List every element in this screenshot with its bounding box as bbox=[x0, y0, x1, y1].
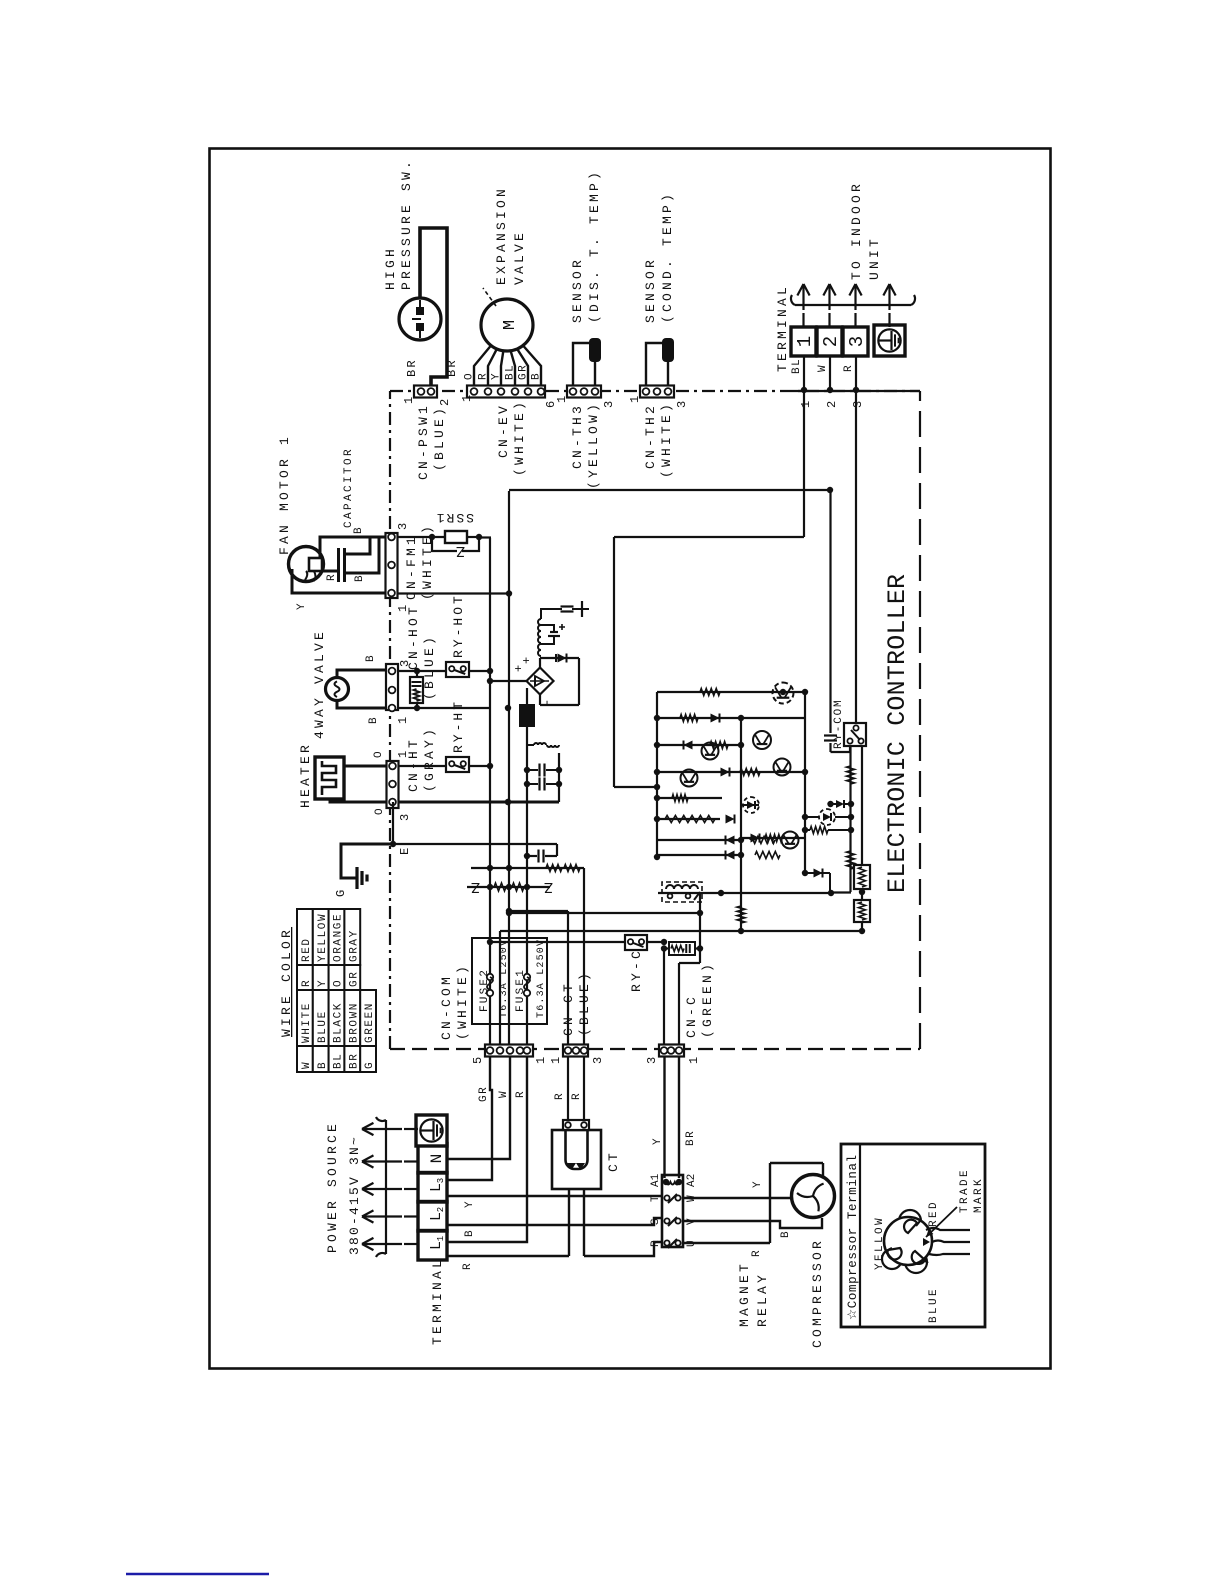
svg-text:CN-C: CN-C bbox=[684, 994, 699, 1038]
cluster row 6 long resistor bbox=[657, 818, 720, 820]
quencher box across CN-C bbox=[669, 942, 695, 955]
svg-text:2: 2 bbox=[436, 1207, 446, 1212]
svg-text:GR: GR bbox=[348, 971, 360, 987]
svg-text:UNIT: UNIT bbox=[867, 236, 882, 280]
svg-text:1: 1 bbox=[628, 396, 642, 403]
svg-text:ELECTRONIC CONTROLLER: ELECTRONIC CONTROLLER bbox=[883, 574, 912, 893]
svg-text:SSR1: SSR1 bbox=[435, 510, 474, 525]
cluster diodes bbox=[711, 714, 720, 723]
sensor thermistor TH3 bbox=[589, 338, 601, 362]
svg-text:(COND. TEMP): (COND. TEMP) bbox=[660, 191, 675, 323]
wire B fan to pin3 bbox=[320, 537, 387, 558]
connector CN-CT bbox=[563, 1045, 588, 1057]
svg-text:G: G bbox=[334, 888, 348, 897]
svg-text:(BLUE): (BLUE) bbox=[422, 634, 437, 700]
node E bbox=[390, 841, 396, 847]
svg-text:1: 1 bbox=[402, 397, 416, 404]
relay coil bbox=[663, 1179, 669, 1185]
wire CN-COM pin4 branch bbox=[499, 931, 501, 1045]
svg-text:3: 3 bbox=[675, 401, 689, 408]
svg-text:VALVE: VALVE bbox=[512, 230, 527, 285]
svg-text:2: 2 bbox=[820, 336, 842, 347]
wire bridge to rail1 bbox=[490, 680, 526, 682]
connector CN-COM bbox=[503, 1045, 515, 1056]
heater wire to pin1 bbox=[344, 765, 387, 768]
svg-text:COMPRESSOR: COMPRESSOR bbox=[810, 1238, 825, 1348]
svg-text:CN-HOT: CN-HOT bbox=[406, 604, 421, 670]
svg-text:R: R bbox=[650, 1240, 662, 1247]
svg-text:1: 1 bbox=[799, 401, 813, 408]
svg-text:2: 2 bbox=[825, 401, 839, 408]
cluster row 4 bbox=[657, 771, 805, 773]
resistor mid bus end bbox=[737, 906, 745, 923]
svg-text:YELLOW: YELLOW bbox=[317, 913, 329, 962]
svg-text:T6.3A L250V: T6.3A L250V bbox=[536, 939, 547, 1018]
svg-text:CN-PSW1: CN-PSW1 bbox=[416, 403, 431, 480]
fuse FUSE2 bbox=[487, 990, 493, 996]
wire Y fan common bbox=[292, 569, 386, 593]
PTC resistor block 2 bbox=[854, 900, 870, 922]
svg-text:GREEN: GREEN bbox=[364, 1002, 376, 1043]
cluster row 5 bbox=[657, 797, 722, 799]
svg-text:L: L bbox=[428, 1241, 445, 1250]
cluster mid bus bbox=[740, 718, 742, 931]
wire R L1 to CN-COM pin1 bbox=[447, 1056, 527, 1242]
SMPS transformer B bbox=[527, 744, 534, 746]
svg-text:SENSOR: SENSOR bbox=[643, 257, 658, 323]
svg-text:+: + bbox=[520, 657, 534, 664]
power rail 1 (GR phase) bbox=[489, 538, 491, 1045]
wire B to compressor bbox=[683, 1218, 822, 1228]
wire HPS pin2 loop bbox=[420, 228, 447, 386]
wire CN-CT pin1 into controller bbox=[567, 911, 569, 1045]
cluster row 7 bbox=[657, 839, 741, 841]
svg-text:HIGH: HIGH bbox=[383, 246, 398, 290]
svg-text:Z: Z bbox=[471, 878, 480, 895]
connector CN-TH3 bbox=[567, 386, 601, 398]
svg-text:Z: Z bbox=[544, 878, 553, 895]
svg-text:WIRE COLOR: WIRE COLOR bbox=[279, 927, 294, 1037]
svg-text:O: O bbox=[464, 372, 476, 380]
transistor T3 bbox=[774, 759, 791, 776]
ground symbol bbox=[347, 877, 357, 880]
svg-text:TRADE: TRADE bbox=[959, 1168, 971, 1213]
PTC resistor block 1 bbox=[854, 865, 870, 889]
svg-text:Y: Y bbox=[752, 1180, 764, 1188]
svg-text:3: 3 bbox=[436, 1178, 446, 1183]
wire R indoor to RY-COM bbox=[855, 390, 857, 723]
cluster row 2 bbox=[657, 717, 805, 719]
svg-text:R: R bbox=[462, 1262, 474, 1270]
wire CN-FM1 pin1 to rail2 bbox=[398, 592, 509, 594]
compressor terminal inset box bbox=[841, 1144, 985, 1327]
resistor right bus to RYCOM bbox=[810, 827, 828, 834]
svg-text:EXPANSION: EXPANSION bbox=[494, 186, 509, 285]
power bundle line bbox=[385, 1120, 387, 1254]
RY-C coil bbox=[662, 882, 702, 902]
svg-text:HEATER: HEATER bbox=[298, 742, 313, 808]
svg-text:1: 1 bbox=[534, 1057, 548, 1064]
svg-text:CN-TH3: CN-TH3 bbox=[570, 403, 585, 469]
footer blue line bbox=[126, 1573, 269, 1575]
svg-text:1: 1 bbox=[794, 336, 816, 347]
svg-text:Y: Y bbox=[317, 979, 329, 987]
wire R L1 phase into CT bbox=[447, 1255, 569, 1257]
svg-text:MAGNET: MAGNET bbox=[737, 1261, 752, 1327]
CT current transformer bbox=[552, 1130, 601, 1189]
svg-text:GRAY: GRAY bbox=[348, 929, 360, 962]
svg-text:BR: BR bbox=[445, 358, 459, 377]
svg-text:R: R bbox=[301, 979, 313, 987]
wire CN-C pin1 into controller bbox=[678, 963, 680, 1045]
svg-text:TERMINAL: TERMINAL bbox=[430, 1257, 445, 1345]
svg-text:(WHITE): (WHITE) bbox=[512, 399, 527, 476]
RY-COM NO chain to PTC resistors bbox=[861, 746, 863, 865]
svg-text:L: L bbox=[428, 1183, 445, 1192]
connector CN-PSW1 bbox=[414, 386, 437, 398]
svg-text:TO INDOOR: TO INDOOR bbox=[849, 181, 864, 280]
svg-text:BLUE: BLUE bbox=[317, 1010, 329, 1043]
terminal pins bbox=[886, 1220, 928, 1264]
svg-text:B: B bbox=[780, 1230, 792, 1238]
wire R CT return to relay bbox=[583, 1189, 585, 1256]
svg-text:RY-C: RY-C bbox=[629, 948, 644, 992]
bridge right loop bbox=[539, 658, 541, 668]
high pressure switch HPS bbox=[399, 298, 441, 340]
svg-text:GR: GR bbox=[478, 1086, 490, 1102]
transistor T2 bbox=[753, 731, 771, 749]
svg-text:BLACK: BLACK bbox=[333, 1002, 345, 1043]
resistors on CT sense line bbox=[546, 865, 562, 872]
transistor T1 triac bbox=[773, 683, 794, 704]
svg-text:BL: BL bbox=[505, 364, 517, 380]
svg-text:BR: BR bbox=[405, 358, 419, 377]
svg-text:380-415V 3N~: 380-415V 3N~ bbox=[347, 1135, 362, 1255]
svg-text:1: 1 bbox=[436, 1236, 446, 1241]
svg-text:T: T bbox=[650, 1195, 662, 1202]
transistor T4 bbox=[702, 743, 719, 760]
terminal triangle mark bbox=[923, 1238, 930, 1246]
svg-text:GR: GR bbox=[518, 364, 530, 380]
svg-text:+: + bbox=[512, 665, 526, 672]
capacitor CAP bbox=[337, 548, 340, 582]
svg-text:O: O bbox=[333, 979, 345, 987]
svg-text:CN-COM: CN-COM bbox=[439, 974, 454, 1040]
transistor T6 bbox=[782, 832, 799, 849]
connector CN-FM1 bbox=[386, 533, 398, 598]
svg-text:O: O bbox=[374, 807, 386, 815]
svg-text:PRESSURE SW.: PRESSURE SW. bbox=[399, 158, 414, 290]
LED cluster bbox=[819, 809, 835, 825]
magnet relay box bbox=[662, 1175, 683, 1247]
power source arrows bbox=[404, 1243, 418, 1245]
svg-text:FUSE2: FUSE2 bbox=[479, 968, 491, 1012]
svg-text:FUSE1: FUSE1 bbox=[515, 968, 527, 1012]
svg-text:L: L bbox=[428, 1212, 445, 1221]
svg-text:WHITE: WHITE bbox=[301, 1002, 313, 1043]
svg-text:M: M bbox=[501, 320, 520, 330]
svg-text:3: 3 bbox=[591, 1057, 605, 1064]
svg-text:ORANGE: ORANGE bbox=[333, 913, 345, 962]
wires CN-CT to CT bbox=[567, 1056, 569, 1120]
wire Y L3 phase bbox=[447, 1195, 662, 1197]
wire W N to CN-COM pin3 bbox=[447, 1056, 510, 1159]
power terminal earth block bbox=[416, 1115, 447, 1146]
wire E into controller bbox=[393, 843, 557, 845]
terminal outer lobes bbox=[899, 1210, 921, 1232]
relay RY-HT bbox=[399, 765, 446, 767]
SMPS switch transistor bbox=[541, 636, 554, 644]
svg-text:TERMINAL: TERMINAL bbox=[775, 284, 790, 372]
svg-text:B: B bbox=[353, 526, 365, 534]
relay RY-COM bbox=[831, 746, 851, 752]
cable bundle line bbox=[795, 304, 911, 306]
bottom diode row bbox=[805, 872, 830, 874]
SMPS output caps bbox=[527, 769, 538, 771]
capacitor stub A bbox=[346, 537, 370, 554]
cluster resistors bbox=[700, 689, 720, 696]
filter choke black bbox=[519, 704, 535, 727]
svg-text:3: 3 bbox=[398, 814, 412, 821]
svg-text:Y: Y bbox=[296, 602, 308, 610]
svg-text:A2: A2 bbox=[686, 1174, 698, 1187]
svg-text:2: 2 bbox=[438, 399, 452, 406]
expansion valve fan wires bbox=[474, 345, 491, 386]
svg-text:1: 1 bbox=[549, 1057, 563, 1064]
SSR1 to rail1 bbox=[479, 536, 491, 538]
wire CN-C pin3 into controller bbox=[663, 948, 665, 1045]
transistor T5 bbox=[681, 770, 698, 787]
svg-text:CAPACITOR: CAPACITOR bbox=[343, 447, 355, 528]
valve wire to pin3 bbox=[337, 670, 386, 678]
snubber across CN-HOT pins bbox=[410, 677, 423, 703]
svg-text:B: B bbox=[354, 574, 366, 582]
SMPS bottom return line bbox=[558, 753, 560, 802]
svg-text:S: S bbox=[650, 1218, 662, 1225]
svg-text:3: 3 bbox=[851, 401, 865, 408]
svg-text:☆Compressor Terminal: ☆Compressor Terminal bbox=[846, 1154, 860, 1320]
svg-text:(BLUE): (BLUE) bbox=[432, 405, 447, 471]
wire BR CN-C pin1 to coil A2 bbox=[678, 1055, 680, 1178]
svg-text:(WHITE): (WHITE) bbox=[455, 963, 470, 1040]
sensor thermistor TH2 bbox=[662, 338, 674, 362]
diagram border frame bbox=[210, 149, 1051, 1369]
indoor unit arrows bbox=[802, 313, 804, 327]
svg-text:1: 1 bbox=[460, 395, 474, 402]
svg-text:CN-EV: CN-EV bbox=[496, 403, 511, 458]
svg-text:W: W bbox=[301, 1061, 313, 1069]
terminal wires bbox=[926, 1228, 970, 1230]
connector CN-C bbox=[659, 1045, 684, 1057]
ELECTRONIC CONTROLLER dashed boundary box bbox=[390, 391, 920, 1049]
heater element bbox=[315, 757, 344, 799]
opto diode bbox=[743, 797, 759, 813]
wire R to compressor loop bbox=[683, 1242, 770, 1244]
svg-text:BL: BL bbox=[791, 358, 803, 374]
power rail 2 (W neutral) bbox=[508, 491, 510, 1045]
relay RY-HOT bbox=[446, 662, 469, 677]
wire PTC to mid bus bbox=[741, 922, 862, 931]
bus to RY-C coil bbox=[658, 892, 831, 894]
connector CN-HT bbox=[387, 761, 399, 808]
svg-text:1: 1 bbox=[687, 1057, 701, 1064]
svg-text:N: N bbox=[428, 1154, 446, 1164]
svg-text:RY-HT: RY-HT bbox=[451, 699, 466, 753]
connector CN-HOT bbox=[386, 664, 398, 710]
cluster left bus bbox=[656, 692, 658, 857]
indoor terminal blocks 1 2 3 and earth bbox=[803, 356, 805, 390]
power rail 3 (R phase) bbox=[526, 820, 528, 1045]
svg-text:RED: RED bbox=[301, 937, 313, 962]
svg-text:SENSOR: SENSOR bbox=[570, 257, 585, 323]
svg-text:3: 3 bbox=[602, 401, 616, 408]
svg-text:CN-HT: CN-HT bbox=[406, 737, 421, 792]
wire B L2 phase bbox=[447, 1218, 662, 1225]
heater bottom wire bbox=[330, 799, 559, 802]
SSR1 varistor parallel loop bbox=[432, 537, 457, 551]
wire GR L3 to CN-COM pin5 bbox=[447, 1056, 492, 1180]
svg-text:(DIS. T. TEMP): (DIS. T. TEMP) bbox=[587, 169, 602, 323]
cluster row 1 bbox=[657, 691, 805, 693]
rail3 extension to SMPS bbox=[526, 727, 528, 820]
svg-text:3: 3 bbox=[846, 336, 868, 347]
compressor motor bbox=[792, 1175, 835, 1218]
compressor wires from magnet relay bbox=[683, 1197, 792, 1199]
svg-text:B: B bbox=[464, 1229, 476, 1237]
expansion valve motor M bbox=[481, 299, 533, 351]
svg-text:E: E bbox=[398, 847, 412, 855]
svg-text:3: 3 bbox=[396, 523, 410, 530]
cluster dots bbox=[654, 854, 660, 860]
cluster row 3 bbox=[657, 744, 741, 746]
wire Y CN-C pin3 to coil A1 bbox=[663, 1055, 665, 1178]
svg-text:RY-HOT: RY-HOT bbox=[451, 593, 466, 658]
svg-text:B: B bbox=[368, 716, 380, 724]
SMPS bridge rectifier bbox=[527, 668, 554, 695]
svg-text:W: W bbox=[498, 1090, 510, 1098]
fan motor FM1 bbox=[289, 547, 324, 582]
svg-text:BR: BR bbox=[685, 1130, 697, 1146]
wire coil to quencher bbox=[699, 892, 701, 963]
svg-text:CT: CT bbox=[606, 1150, 621, 1172]
wire W indoor terminal to rails bbox=[509, 489, 830, 491]
svg-text:R: R bbox=[751, 1249, 763, 1257]
svg-text:R: R bbox=[554, 1092, 566, 1100]
varistor row between rails bbox=[467, 886, 550, 888]
solid boundary overlay near indoor wires bbox=[793, 390, 920, 392]
svg-text:B: B bbox=[531, 372, 543, 380]
svg-text:CN-TH2: CN-TH2 bbox=[643, 403, 658, 469]
svg-text:4WAY VALVE: 4WAY VALVE bbox=[312, 629, 327, 739]
CT connector bbox=[563, 1120, 589, 1130]
ground wire G bbox=[341, 844, 393, 878]
relay contacts T S R bbox=[664, 1195, 669, 1200]
svg-text:FAN MOTOR 1: FAN MOTOR 1 bbox=[277, 434, 292, 555]
svg-text:(YELLOW): (YELLOW) bbox=[586, 401, 601, 489]
svg-text:YELLOW: YELLOW bbox=[874, 1216, 886, 1270]
capacitor stub B bbox=[346, 537, 379, 573]
wire BL indoor to cluster bbox=[803, 390, 805, 537]
svg-text:B: B bbox=[317, 1061, 329, 1069]
4way valve solenoid bbox=[326, 678, 349, 701]
svg-text:W: W bbox=[817, 364, 829, 372]
svg-text:BLUE: BLUE bbox=[928, 1287, 940, 1323]
svg-text:B: B bbox=[365, 654, 377, 662]
svg-text:R: R bbox=[515, 1090, 527, 1098]
svg-text:BL: BL bbox=[333, 1053, 345, 1069]
svg-text:1: 1 bbox=[555, 396, 569, 403]
svg-text:1: 1 bbox=[396, 717, 410, 724]
wire R protector to cap bbox=[322, 570, 337, 573]
terminal drawing circle bbox=[884, 1217, 932, 1265]
fuse FUSE1 bbox=[524, 990, 530, 996]
bus 2 bbox=[509, 912, 700, 914]
svg-text:Y: Y bbox=[491, 372, 503, 380]
svg-text:(WHITE): (WHITE) bbox=[659, 401, 674, 478]
svg-text:BROWN: BROWN bbox=[348, 1002, 360, 1043]
svg-text:RELAY: RELAY bbox=[755, 1272, 770, 1327]
svg-text:3: 3 bbox=[645, 1057, 659, 1064]
cluster right bus bbox=[804, 692, 806, 873]
SSR1 resistor + varistor bbox=[429, 534, 435, 540]
SMPS top cap bbox=[561, 610, 574, 612]
transformer A top wire bbox=[541, 609, 562, 619]
cap on W line bbox=[824, 739, 837, 741]
svg-text:R: R bbox=[571, 1092, 583, 1100]
svg-text:(GRAY): (GRAY) bbox=[422, 726, 437, 792]
svg-text:(GREEN): (GREEN) bbox=[700, 961, 715, 1038]
svg-text:G: G bbox=[364, 1061, 376, 1069]
connector CN-EV bbox=[467, 386, 545, 398]
svg-text:RY-COM: RY-COM bbox=[833, 699, 845, 749]
svg-text:R: R bbox=[326, 573, 338, 581]
svg-text:Y: Y bbox=[652, 1137, 664, 1145]
svg-text:R: R bbox=[478, 372, 490, 380]
svg-text:Z: Z bbox=[456, 542, 465, 559]
svg-text:Y: Y bbox=[464, 1200, 476, 1208]
svg-text:R: R bbox=[843, 364, 855, 372]
svg-text:RED: RED bbox=[928, 1200, 940, 1227]
power terminal blocks L1 L2 L3 N bbox=[418, 1143, 447, 1260]
cap to E bbox=[527, 855, 537, 857]
fuse block box bbox=[472, 938, 547, 1024]
valve wire to pin1 bbox=[337, 700, 386, 708]
svg-text:5: 5 bbox=[471, 1057, 485, 1064]
svg-text:BR: BR bbox=[348, 1053, 360, 1069]
relay RY-C contact bbox=[490, 941, 625, 943]
SMPS transformer A bbox=[538, 644, 541, 656]
svg-text:POWER SOURCE: POWER SOURCE bbox=[325, 1121, 340, 1253]
RY-COM NC resistor chain bbox=[849, 746, 851, 892]
right cluster links bbox=[741, 837, 805, 839]
svg-text:CN-FM1: CN-FM1 bbox=[404, 534, 419, 600]
svg-text:MARK: MARK bbox=[973, 1177, 985, 1213]
fan motor thermal protector bbox=[309, 558, 322, 571]
cluster row 8 bbox=[657, 854, 741, 856]
wire heater pin3 to E bbox=[392, 802, 394, 844]
svg-text:O: O bbox=[373, 750, 385, 758]
connector CN-TH2 bbox=[640, 386, 674, 398]
svg-text:A1: A1 bbox=[650, 1173, 662, 1187]
wire CN-CT pin3 into controller bbox=[583, 868, 585, 1045]
